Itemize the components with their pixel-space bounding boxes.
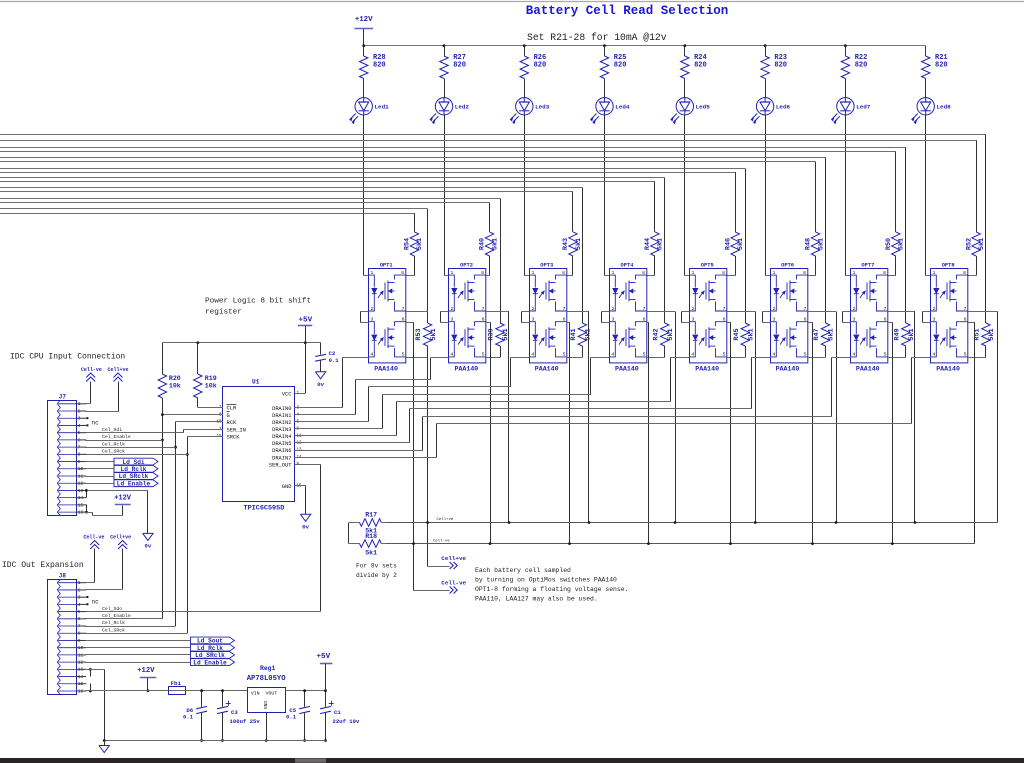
svg-text:For 8v sets: For 8v sets [356,563,397,570]
ground 0v below J7 [143,533,153,540]
svg-text:Ld_Rclk: Ld_Rclk [197,645,223,652]
wire OPT1 pin7 stub [406,311,428,313]
ground triangle bottom [99,746,109,753]
svg-text:Set R21-28 for 10mA @12v: Set R21-28 for 10mA @12v [527,32,667,43]
svg-text:5: 5 [563,352,566,358]
wire J7 pin13/14 bracket to 0v [86,491,88,498]
svg-text:1: 1 [692,270,695,276]
svg-text:8: 8 [642,270,645,276]
svg-text:Ld_SRclk: Ld_SRclk [195,652,225,659]
wire J7 pin8 row [85,454,187,456]
svg-text:820: 820 [774,62,787,70]
svg-text:Led6: Led6 [776,104,791,111]
svg-text:1: 1 [853,270,856,276]
svg-text:Ld_Sout: Ld_Sout [197,638,223,645]
wire J8 pin8 row [85,633,187,635]
resistor R53 5k1 (bottom) [423,323,431,346]
junction top rail col6 [764,44,767,47]
wire OPT5 pins2-3 jumper bracket [682,311,690,313]
wire OPT1 R53 to Cell+ve rail [427,346,429,523]
svg-text:Led5: Led5 [696,104,711,111]
svg-text:7: 7 [884,306,887,312]
wire OPT3 pins2-3 jumper bracket [522,311,530,313]
svg-text:5: 5 [723,352,726,358]
svg-text:2: 2 [692,306,695,312]
svg-text:5k1: 5k1 [817,238,825,250]
wire OPT8 pin5 stub [968,357,986,359]
resistor R54 5k1 (top) [410,232,418,256]
wire OPT8 R51 bottom to pin5 stub [985,346,987,357]
junction +12V rail [147,689,150,692]
wire SER_OUT to J8 pin5 [295,464,321,466]
svg-text:+5V: +5V [298,317,312,325]
wire J7 pin2 to Cell+ve [86,411,119,413]
wire OPT7 pin5 stub [888,357,906,359]
wire bus cell7 sense-A (to OPT7 R-bottom chain) [0,147,906,149]
wire U1 G row [162,414,223,416]
wire bus cell4 sense-A (to OPT4 R-bottom chain) [0,177,665,179]
svg-text:Cell-ve: Cell-ve [441,579,466,586]
svg-text:SRCK: SRCK [227,435,241,441]
wire OPT1 pins2-3 jumper bracket [361,311,369,313]
IC U1 TPIC6C595D [223,387,295,502]
wire Cell+ve rail [385,522,997,524]
wire Led4 cathode down to OPT4 pin1 [604,115,606,276]
resistor R46 5k1 (top) [731,232,739,256]
svg-text:SER_IN: SER_IN [227,427,246,433]
svg-text:4: 4 [371,352,374,358]
wire Led6 cathode down to OPT6 pin1 [765,115,767,276]
wire Cell+ve arrow to J8 pin2 [122,549,124,590]
svg-text:8: 8 [803,270,806,276]
svg-text:5k1: 5k1 [898,238,906,250]
svg-text:5: 5 [402,352,405,358]
svg-text:R53: R53 [415,328,423,340]
svg-text:Cell+ve: Cell+ve [437,517,454,522]
junction G net at J7 pin6 [161,439,164,442]
svg-text:C1: C1 [334,709,341,716]
wire bus cell2 sense-B (to OPT2 R-top) [0,202,490,204]
ground 0v below U1 [300,514,310,521]
svg-text:5k1: 5k1 [747,328,755,340]
junction Cell+ve rail col6 [835,521,838,524]
junction Cell-ve rail col6 [811,542,814,545]
LED Led1 [350,98,373,124]
svg-text:OPT1: OPT1 [380,262,393,268]
wire U1 SRCK row [187,436,223,438]
svg-text:Fb1: Fb1 [171,680,182,687]
wire bus cell6 sense-A (to OPT6 R-bottom chain) [0,157,826,159]
svg-text:DRAIN5: DRAIN5 [272,441,291,447]
svg-text:1: 1 [773,270,776,276]
svg-text:Cel_Rclk: Cel_Rclk [102,441,125,447]
wire DRAIN2 to OPT3 pin4 [295,421,369,423]
svg-text:5k1: 5k1 [430,328,438,340]
svg-text:10k: 10k [205,383,217,390]
svg-text:820: 820 [694,62,707,70]
svg-text:Each battery cell sampled: Each battery cell sampled [475,567,571,574]
wire bus cell2 sense-A (to OPT2 R-bottom chain) [0,198,500,200]
svg-text:5k1: 5k1 [491,238,499,250]
wire DRAIN3 to OPT4 pin4 [295,428,383,430]
wire Cell+ve rail end up to OPT8 pin7 [997,312,999,523]
svg-text:U1: U1 [252,379,260,386]
wire OPT2 R39 bottom to pin5 stub [500,346,502,357]
junction top rail col4 [603,44,606,47]
svg-text:Led7: Led7 [856,104,871,111]
resistor R43 5k1 (top) [569,232,577,256]
junction Cell-ve rail col2 [489,542,492,545]
svg-text:820: 820 [855,62,868,70]
svg-text:7: 7 [482,306,485,312]
svg-text:+12V: +12V [114,495,132,503]
junction C5 bottom [303,739,306,742]
resistor R18 5k1 [349,543,360,545]
svg-text:DRAIN4: DRAIN4 [272,434,291,440]
wire SER_IN from J7 pin5 to U1 [86,432,184,434]
svg-text:Cel_Sdo: Cel_Sdo [102,606,122,612]
svg-text:4: 4 [692,352,695,358]
svg-text:IDC CPU Input Connection: IDC CPU Input Connection [10,353,125,362]
svg-text:5: 5 [884,352,887,358]
node flag Ld_Enable [191,659,235,666]
junction ground rail left [103,739,106,742]
wire OPT5 pin8 stub [727,275,735,277]
resistor R20 10k [162,343,164,374]
resistor R25 820 [604,46,606,56]
LED Led8 [912,98,935,124]
svg-text:4: 4 [532,352,535,358]
wire +5V bar to +5V line [305,326,307,343]
svg-text:5: 5 [482,352,485,358]
svg-text:TPIC6C595D: TPIC6C595D [244,505,285,513]
wire +5V bar down to rail [325,664,327,691]
svg-text:PAA140: PAA140 [776,365,800,372]
wire SRCK net vertical [187,436,189,633]
svg-text:AP78L05YO: AP78L05YO [247,675,287,683]
svg-text:5: 5 [804,352,807,358]
node flag Ld_Rclk [114,465,158,472]
svg-text:820: 820 [373,62,386,70]
svg-text:OPT3: OPT3 [540,262,553,268]
svg-text:Cel_Sdi: Cel_Sdi [102,427,122,433]
wire Led7 cathode down to OPT7 pin1 [845,115,847,276]
svg-text:2: 2 [371,306,374,312]
wire J7 pin10 to flag [85,468,114,470]
svg-text:5k1: 5k1 [828,328,836,340]
top page border line [0,1,1024,3]
ferrite bead Fb1 [169,687,186,695]
svg-text:OPT4: OPT4 [621,262,635,268]
svg-text:Led4: Led4 [615,104,630,111]
svg-text:0.1: 0.1 [286,714,297,721]
wire R17/R18 left jumper [348,523,350,544]
junction Cell-ve rail col4 [647,542,650,545]
svg-text:820: 820 [534,62,547,70]
junction G net at U1 row [161,413,164,416]
wire Cell+ve tap down to flag [427,523,429,567]
node flag Ld_Sout [191,637,235,644]
bottom gray bar [0,758,1024,763]
wire OPT2 pins2-3 jumper bracket [441,311,449,313]
wire bus cell5 sense-A (to OPT5 R-bottom chain) [0,168,745,170]
wire OPT3 pin5 stub [567,357,583,359]
wire J7 pin11 to flag [85,476,114,478]
wire DRAIN1 to OPT2 pin4 [295,414,356,416]
wire DRAIN5 to OPT6 pin4 [295,442,410,444]
wire OPT7 pin8 stub [888,275,896,277]
svg-text:3: 3 [692,317,695,323]
svg-text:3: 3 [933,317,936,323]
resistor R47 5k1 (bottom) [821,323,829,346]
svg-text:6: 6 [402,317,405,323]
svg-text:2: 2 [853,306,856,312]
svg-text:Cell+ve: Cell+ve [108,367,129,373]
resistor R45 5k1 (bottom) [741,323,749,346]
svg-text:4: 4 [933,352,936,358]
resistor R22 820 [845,46,847,56]
wire OPT3 pin8 stub [567,275,573,277]
wire OPT4 pin5 stub [647,357,665,359]
wire OPT6 pin6 stub to rail2 drop [807,322,812,324]
svg-text:R19: R19 [205,375,217,382]
svg-text:VIN: VIN [251,690,260,696]
junction Cell+ve rail col5 [754,521,757,524]
svg-text:PAA140: PAA140 [455,365,479,372]
svg-text:2: 2 [773,306,776,312]
svg-text:DRAIN1: DRAIN1 [272,413,291,419]
wire DRAIN6 to OPT7 pin4 [295,450,423,452]
svg-text:DRAIN3: DRAIN3 [272,427,291,433]
wire J8 pin10 to flag [85,647,190,649]
svg-text:PAA140: PAA140 [535,365,559,372]
resistor R28 820 [363,46,365,56]
wire bus cell8 sense-B (to OPT8 R-top) [0,140,976,142]
svg-text:Ld_SRclk: Ld_SRclk [119,473,149,480]
svg-text:5: 5 [643,352,646,358]
wire J7 pin9 to flag [85,461,114,463]
wire OPT4 pin6 stub to rail2 drop [647,322,649,324]
LED Led4 [591,98,614,124]
svg-text:5k1: 5k1 [365,549,377,556]
resistor R52 5k1 (top) [972,232,980,256]
resistor R27 820 [444,46,446,56]
svg-text:1: 1 [933,270,936,276]
svg-text:8: 8 [401,270,404,276]
svg-text:4: 4 [773,352,776,358]
wire OPT5 pin6 stub to rail2 drop [727,322,730,324]
resistor R21 820 [925,46,927,56]
wire OPT4 pin8 stub [647,275,655,277]
svg-text:3: 3 [532,317,535,323]
wire OPT1 pin8 stub [406,275,414,277]
svg-text:Cell-ve: Cell-ve [433,538,450,543]
svg-text:C2: C2 [329,350,336,357]
junction +5V at R19 [196,341,199,344]
svg-text:R41: R41 [570,328,578,340]
wire bus cell5 sense-B (to OPT5 R-top) [0,172,735,174]
opto-relay OPT5 PAA140 [690,269,727,363]
svg-text:22uf 10v: 22uf 10v [333,718,360,725]
svg-text:Ld_Sdi: Ld_Sdi [122,459,145,466]
svg-text:R39: R39 [488,328,496,340]
svg-text:register: register [205,309,242,317]
junction Cell+ve rail col4 [674,521,677,524]
wire Led3 cathode down to OPT3 pin1 [524,115,526,276]
opto-relay OPT8 PAA140 [931,269,968,363]
opto-relay OPT6 PAA140 [771,269,808,363]
wire J7 pin6 row [85,440,162,442]
svg-text:R49: R49 [893,328,901,340]
wire OPT3 pin6 stub to rail2 drop [567,322,570,324]
wire Fb1 to regulator [169,690,248,692]
node flag Ld_Sdi [114,458,158,465]
connector J7 [48,401,77,516]
junction C5 top [303,689,306,692]
wire RCK net vertical [175,422,177,626]
svg-text:SER_OUT: SER_OUT [269,462,292,468]
wire +5V distribution line [162,342,320,344]
svg-text:+12V: +12V [355,16,373,24]
svg-text:1: 1 [371,270,374,276]
wire Cell-ve arrow to J8 pin1 [94,549,96,583]
svg-text:4: 4 [451,352,454,358]
svg-text:R52: R52 [965,238,973,250]
wire OPT6 pins2-3 jumper bracket [763,311,771,313]
wire bus cell3 sense-A (to OPT3 R-bottom chain) [0,187,582,189]
node flag Ld_Enable [114,480,158,487]
svg-text:CLR: CLR [227,406,237,412]
svg-text:Cel_SRck: Cel_SRck [102,627,125,633]
svg-text:Led1: Led1 [375,104,390,111]
resistor R48 5k1 (top) [811,232,819,256]
svg-text:IDC Out Expansion: IDC Out Expansion [2,561,84,570]
svg-text:OPT5: OPT5 [701,262,714,268]
wire OPT7 R49 bottom to pin5 stub [905,346,907,357]
svg-text:DRAIN2: DRAIN2 [272,420,291,426]
svg-text:5k1: 5k1 [657,238,665,250]
LED Led3 [511,98,534,124]
wire OPT7 pin6 stub to rail2 drop [888,322,893,324]
junction D6 top [200,689,203,692]
wire U1 RCK row [176,421,224,423]
wire U1 VCC to +5V [295,393,306,395]
svg-text:7: 7 [964,306,967,312]
wire OPT2 pin5 stub [486,357,500,359]
svg-text:J8: J8 [59,573,67,580]
svg-text:DRAIN7: DRAIN7 [272,455,291,461]
resistor R49 5k1 (bottom) [902,323,910,346]
svg-text:6: 6 [643,317,646,323]
svg-text:8: 8 [481,270,484,276]
node flag Ld_SRclk [191,652,235,659]
svg-text:PAA110, LAA127 may also be use: PAA110, LAA127 may also be used. [475,596,598,603]
svg-text:3: 3 [371,317,374,323]
wire OPT5 pin5 stub [727,357,745,359]
wire OPT4 pin7 stub to rail1 drop [647,311,675,313]
svg-text:3: 3 [451,317,454,323]
svg-text:0v: 0v [317,381,324,388]
svg-text:R47: R47 [813,328,821,340]
wire bus cell7 sense-B (to OPT7 R-top) [0,151,896,153]
svg-text:1: 1 [451,270,454,276]
svg-text:4: 4 [612,352,615,358]
wire top +12V rail [364,45,926,47]
opto-relay OPT4 PAA140 [610,269,647,363]
svg-text:C3: C3 [231,709,238,716]
wire J8 pin6 row [85,618,162,620]
wire J8 pin9 to flag [85,640,190,642]
wire Cell-ve tap down to flag [413,544,415,591]
resistor R24 820 [684,46,686,56]
svg-text:820: 820 [614,62,627,70]
wire J8 pin7 row [85,626,175,628]
wire OPT6 pin8 stub [807,275,815,277]
svg-text:nc: nc [92,419,100,426]
svg-text:Cel_Rclk: Cel_Rclk [102,620,125,626]
svg-text:OPT1-8 forming a floating volt: OPT1-8 forming a floating voltage sense. [475,586,628,593]
wire J8 pin12 to flag [85,662,190,664]
junction C3 top [221,689,224,692]
svg-text:10k: 10k [169,383,181,390]
svg-text:5k1: 5k1 [575,238,583,250]
svg-text:100uf 25v: 100uf 25v [230,718,261,725]
junction top rail col1 [362,44,365,47]
junction C1 bottom [324,739,327,742]
wire OPT6 pin5 stub [807,357,825,359]
wire OPT2 pin7 stub to rail1 drop [486,311,509,313]
svg-text:6: 6 [964,317,967,323]
capacitor C3 100uf 25v [222,691,224,707]
svg-text:PAA140: PAA140 [374,365,398,372]
wire J8 pin13/14 bracket to ground rail [90,670,92,677]
svg-text:6: 6 [482,317,485,323]
wire Led8 cathode down to OPT8 pin1 [925,115,927,276]
wire bus cell1 sense-A (to OPT1 R-bottom chain) [0,208,428,210]
resistor R26 820 [524,46,526,56]
svg-text:R40: R40 [479,238,487,250]
junction Cell+ve rail col2 [508,521,511,524]
svg-text:5k1: 5k1 [988,328,996,340]
junction top rail col7 [844,44,847,47]
junction C1 top [324,689,327,692]
svg-text:VOUT: VOUT [266,690,278,696]
svg-text:8: 8 [963,270,966,276]
svg-text:Led2: Led2 [455,104,470,111]
wire +12V to top rail [363,29,365,46]
wire OPT3 pin7 stub to rail1 drop [567,311,589,313]
wire OPT7 pins2-3 jumper bracket [843,311,851,313]
svg-text:+12V: +12V [137,667,155,675]
svg-text:820: 820 [935,62,948,70]
svg-text:8: 8 [722,270,725,276]
connector J8 [48,580,77,695]
svg-text:OPT2: OPT2 [460,262,473,268]
node flag Ld_SRclk [114,473,158,480]
svg-text:Ld_Rclk: Ld_Rclk [121,466,147,473]
node flag Ld_Rclk [191,644,235,651]
svg-text:G: G [227,413,230,419]
svg-text:R18: R18 [365,533,377,540]
svg-text:PAA140: PAA140 [695,365,719,372]
wire OPT2 pin8 stub [486,275,489,277]
svg-text:Power Logic 8 bit shift: Power Logic 8 bit shift [205,298,311,306]
junction C3 bottom [221,739,224,742]
svg-text:Reg1: Reg1 [260,665,276,672]
svg-text:R42: R42 [652,328,660,340]
svg-text:PAA140: PAA140 [856,365,880,372]
wire DRAIN0 to OPT1 pin4 [295,407,343,409]
